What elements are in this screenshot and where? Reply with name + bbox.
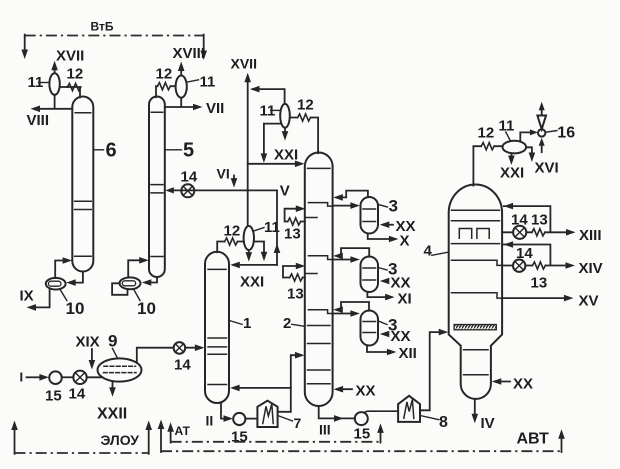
vacuum pumparound upper: return arrow and draw through pump 14 and cooler 13 to XIII — [502, 206, 571, 232]
label 16 with tick — [546, 131, 557, 133]
wire drum bottom arrow to XXI — [510, 153, 512, 160]
svg-text:16: 16 — [557, 125, 575, 142]
ejector 16 — [538, 129, 545, 136]
svg-text:15: 15 — [45, 388, 62, 405]
bus VtB (dash-dot header line) — [25, 35, 204, 37]
reflux drum 11 of column 5 — [176, 76, 187, 98]
column 4 packing bed (hatched) — [454, 325, 496, 330]
reflux drum 11 of column 2 — [280, 104, 290, 128]
heat exchanger 14 (feed) — [73, 371, 86, 384]
column 2 tray lines — [308, 168, 331, 383]
svg-text:XIX: XIX — [76, 334, 100, 351]
wire exchanger to column 1 feed — [185, 347, 200, 349]
svg-text:13: 13 — [531, 275, 548, 292]
svg-text:VII: VII — [206, 100, 224, 117]
heat exchanger 14 (desalted crude) — [174, 342, 186, 354]
label 4 with tick — [432, 252, 448, 255]
wire stripper bottoms to product X — [368, 234, 395, 240]
column 1 tray lines — [208, 269, 227, 384]
label 6 with tick — [94, 149, 104, 151]
column 5 shell — [149, 97, 165, 278]
wire drum reflux loop down to column 2 reflux line — [264, 124, 280, 159]
svg-text:13: 13 — [284, 226, 301, 243]
svg-text:V: V — [280, 183, 290, 200]
column 4 shell — [449, 185, 502, 399]
wire column 6 overhead to condenser 12 — [67, 87, 80, 97]
side stripper 3 upper — [361, 197, 379, 234]
svg-text:15: 15 — [231, 429, 248, 446]
label 11 with tick — [254, 228, 264, 232]
vacuum pumparound lower: return arrow and draw through pump 14 and cooler 13 to XIV — [502, 245, 571, 266]
svg-text:10: 10 — [66, 299, 85, 318]
wire pump to heat exchanger 14 — [62, 376, 74, 378]
wire column 5 overhead to condenser 12 — [156, 86, 176, 97]
pump 15 (column 2 bottoms) — [355, 412, 368, 425]
svg-text:I: I — [20, 370, 24, 385]
wire furnace 7 transfer into column 2 and hot jet to column 1 — [278, 355, 301, 412]
svg-text:XXI: XXI — [274, 147, 298, 164]
svg-text:XIII: XIII — [579, 227, 602, 244]
wire drum top to ejector 16 — [520, 132, 534, 141]
bus VtB left drop arrow — [24, 35, 26, 52]
column 6 tray lines — [75, 113, 92, 257]
svg-text:II: II — [206, 413, 214, 429]
svg-text:VIII: VIII — [27, 112, 50, 129]
pump 15 (feed) — [49, 371, 62, 384]
column 4 draw trays with jogs — [452, 260, 503, 265]
column 2 left wall ticks — [305, 218, 317, 274]
column 5 tray lines — [151, 112, 163, 256]
wire column 5 bottoms to reboiler — [146, 277, 157, 282]
reflux drum 11 of column 6 — [49, 73, 59, 95]
svg-text:XX: XX — [356, 383, 376, 400]
svg-text:14: 14 — [511, 212, 528, 229]
wire reboiler seal loop — [112, 283, 127, 295]
svg-text:7: 7 — [294, 415, 302, 431]
condenser 12 (zigzag) of column 5 — [157, 83, 170, 90]
wire reboiler to product IX — [30, 289, 49, 308]
svg-text:АВТ: АВТ — [517, 431, 550, 448]
wire reboiler vapor return into column 5 — [128, 260, 144, 277]
wire stripper bottoms to product XI — [367, 292, 390, 297]
svg-text:8: 8 — [439, 414, 448, 431]
wire stream V riser with up arrow — [276, 190, 278, 265]
wire XVI branch down arrow — [527, 147, 532, 156]
label 3 with tick — [378, 205, 387, 208]
wire column 6 bottoms to reboiler — [70, 272, 83, 283]
desalter 9 (ELOU vessel) — [98, 358, 142, 381]
svg-text:XXI: XXI — [240, 274, 264, 291]
svg-text:XVII: XVII — [231, 56, 257, 72]
label 7 with tick — [278, 416, 293, 422]
heat exchanger 14 (stream V) — [181, 184, 194, 197]
label 3 with tick — [378, 321, 387, 325]
gas line to XVII with up arrow — [54, 65, 56, 73]
svg-text:6: 6 — [106, 140, 117, 162]
wire pump to furnace 7 — [245, 418, 257, 420]
pump 15 (column 1 bottoms) — [233, 413, 245, 425]
svg-text:XV: XV — [579, 293, 599, 310]
label 5 with tick — [165, 149, 181, 151]
wire drum bottom arrow to XXI — [284, 128, 286, 136]
pumparound cooler 13 upper of column 2 — [285, 209, 305, 222]
svg-text:12: 12 — [297, 97, 314, 114]
column 6 shell — [72, 97, 93, 272]
svg-text:1: 1 — [243, 315, 251, 332]
svg-text:XX: XX — [513, 376, 533, 393]
vacuum reflux drum 11 (horizontal) — [503, 141, 527, 154]
wire column 2 draw to stripper feed — [333, 259, 354, 261]
wire reboiler vapor return into column 6 — [55, 261, 68, 279]
svg-text:2: 2 — [283, 315, 291, 332]
svg-text:XXI: XXI — [500, 165, 524, 182]
wire steam XX into column 2 bottom — [337, 388, 352, 390]
svg-text:XX: XX — [391, 275, 411, 292]
reboiler 10 of column 6 — [46, 278, 66, 290]
bus AT — [171, 441, 381, 443]
svg-text:14: 14 — [516, 245, 533, 262]
label 11 with tick — [187, 80, 198, 82]
furnace 7 — [257, 401, 277, 427]
wire stripper vapor return to column 2 — [337, 302, 370, 311]
condenser 12 (zigzag) of column 6 — [67, 83, 81, 90]
column 1 shell — [205, 252, 229, 403]
label 1 with tick — [229, 321, 242, 325]
svg-text:XIV: XIV — [579, 260, 603, 277]
wire column 1 overhead riser to XVII — [247, 78, 249, 227]
svg-text:ЭЛОУ: ЭЛОУ — [101, 432, 140, 448]
wire drum right side down arrow — [254, 242, 264, 257]
svg-text:X: X — [400, 233, 410, 250]
column 4 upper tray lines — [452, 210, 500, 243]
label 8 with tick — [420, 416, 439, 420]
svg-text:5: 5 — [183, 140, 194, 162]
label 2 with tick — [292, 324, 305, 326]
svg-text:XI: XI — [398, 291, 412, 308]
svg-text:XVII: XVII — [56, 48, 84, 65]
svg-text:14: 14 — [69, 386, 86, 403]
wire column 2 draw to stripper feed — [333, 313, 354, 315]
svg-text:12: 12 — [67, 66, 84, 83]
svg-text:III: III — [319, 422, 331, 438]
column 4 chimney trays — [459, 229, 471, 239]
bus AVT — [161, 450, 562, 452]
svg-text:АТ: АТ — [175, 424, 191, 438]
drum bottom tee: VIII product left, reflux right into column 6 — [34, 95, 71, 109]
gas line to XVIII with up arrow — [180, 66, 182, 75]
condenser 12 (zigzag) of column 4 — [481, 143, 494, 150]
side stripper 3 middle — [361, 257, 379, 293]
wire drum bottom arrow down — [248, 250, 250, 257]
reflux drum 11 of column 1 — [244, 226, 254, 250]
svg-text:ВтБ: ВтБ — [91, 20, 114, 34]
svg-text:15: 15 — [354, 426, 371, 443]
wire stripper vapor return to column 2 — [337, 191, 368, 198]
label 10 with tick — [60, 289, 67, 300]
bus ELOU — [15, 452, 149, 454]
svg-text:XX: XX — [391, 328, 411, 345]
reboiler 10 of column 5 — [120, 277, 141, 289]
svg-text:IV: IV — [481, 415, 495, 432]
wire furnace 8 transfer line to column 4 — [420, 332, 444, 410]
column 2 draw trays with jogs — [308, 203, 332, 207]
svg-text:12: 12 — [224, 223, 241, 240]
svg-text:XXII: XXII — [97, 406, 127, 423]
wire crude feed with arrow — [27, 376, 41, 378]
wire column 4 overhead to condenser 12 — [473, 146, 502, 185]
svg-text:VI: VI — [217, 166, 230, 182]
wire exchanger to desalter 9 — [87, 376, 102, 378]
svg-text:XVIII: XVIII — [173, 45, 206, 62]
wire desalter drain to XXII — [112, 381, 114, 392]
wire column 2 bottoms III to pump 15 — [319, 406, 355, 418]
wire column 2 draw to stripper feed — [333, 205, 354, 207]
wire stripper vapor return to column 2 — [337, 248, 370, 257]
wire stream V to column 5 via exchanger 14 — [174, 189, 278, 191]
wire stripper bottoms to product XII — [367, 346, 392, 352]
column 4 stripping tray lines — [464, 350, 489, 375]
pumparound cooler 13 lower of column 2 — [283, 266, 305, 278]
bus VtB right drop arrow — [203, 35, 205, 53]
wire overhead product line into column 1 top — [234, 264, 278, 266]
svg-text:13: 13 — [531, 212, 548, 229]
wire steam XX into stripper — [383, 333, 388, 335]
column 2 shell — [305, 153, 333, 407]
wire reflux line into column 2 top — [248, 163, 301, 165]
wire riser junction to reflux drum of column 2 — [253, 89, 285, 104]
svg-text:12: 12 — [478, 125, 495, 142]
furnace 8 — [398, 396, 420, 422]
svg-text:4: 4 — [424, 243, 433, 260]
svg-text:14: 14 — [174, 357, 191, 374]
svg-text:10: 10 — [137, 299, 156, 318]
svg-text:13: 13 — [287, 286, 304, 303]
wire condenser to reflux drum 11 — [60, 86, 68, 88]
svg-text:11: 11 — [200, 74, 216, 91]
wire column 1 bottoms II to pump 15 — [221, 403, 229, 419]
label 3 with tick — [378, 268, 387, 271]
wire steam XX into stripper — [383, 224, 393, 226]
wire column 4 bottoms to IV — [474, 400, 476, 419]
wire pump to furnace 8 — [365, 411, 399, 412]
svg-text:XVI: XVI — [535, 160, 559, 177]
svg-text:3: 3 — [389, 197, 398, 216]
wire steam XX into column 4 bottom — [495, 381, 510, 383]
drum bottom tee: reflux left into column 5, VII product right — [165, 98, 199, 107]
side stripper 3 lower — [361, 311, 379, 346]
svg-text:12: 12 — [156, 66, 173, 83]
label 10 with tick — [134, 289, 141, 301]
wire desalted crude riser to exchanger 14 — [137, 348, 174, 363]
svg-text:XII: XII — [399, 345, 417, 362]
wire side draw XV — [502, 297, 569, 299]
wire steam XX into stripper — [383, 280, 388, 282]
svg-text:14: 14 — [181, 169, 198, 186]
svg-text:IX: IX — [20, 288, 34, 305]
